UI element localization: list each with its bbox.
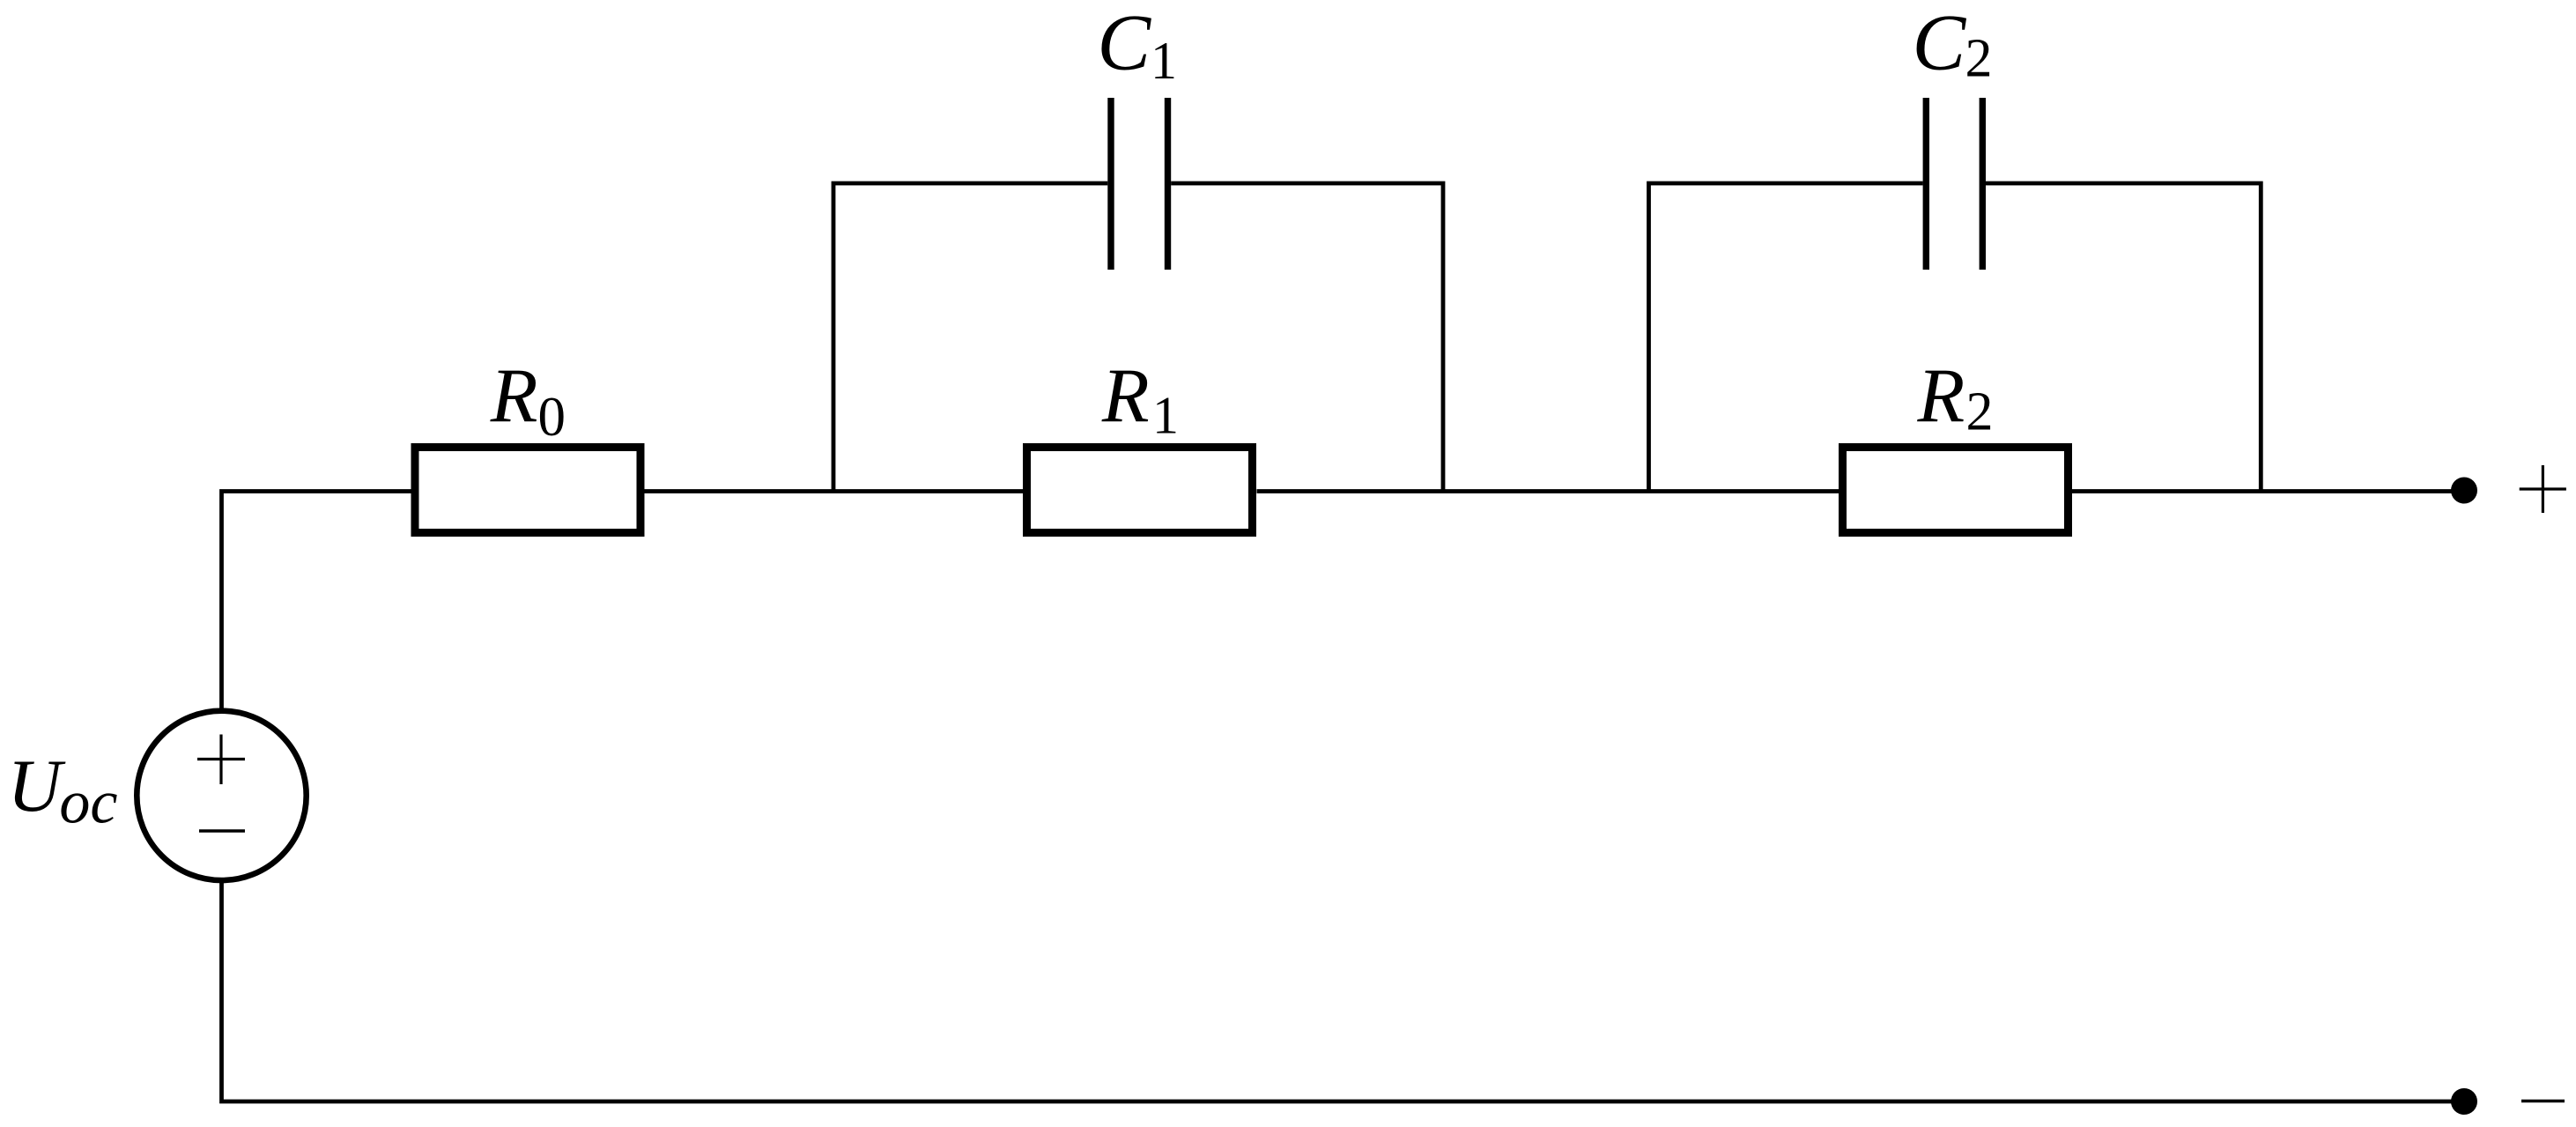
svg-text:C: C: [1913, 0, 1967, 86]
svg-text:U: U: [8, 745, 66, 827]
label R1: [1101, 354, 1179, 445]
wire: C2 loop left riser and top-left segment: [1649, 183, 1923, 493]
resistor R0: [415, 448, 640, 533]
wire: left branch from R0 to source top: [222, 492, 411, 710]
resistor R2: [1843, 448, 2069, 533]
svg-text:R: R: [1917, 354, 1965, 440]
voltage source U_oc: [137, 711, 306, 880]
wire: C1 loop top-right segment and right riser: [1171, 183, 1443, 493]
wire: R1 to R2: [1257, 489, 1843, 493]
label R0: [490, 354, 566, 449]
svg-text:2: 2: [1965, 29, 1993, 89]
wire: source bottom down and bottom rail to negative terminal: [222, 882, 2455, 1102]
resistor R1: [1027, 448, 1253, 533]
label R2: [1917, 354, 1994, 442]
label + (positive terminal): [2520, 465, 2566, 513]
label C2: [1913, 0, 1993, 89]
wire: C2 loop top-right segment and right riser: [1986, 183, 2261, 493]
svg-text:oc: oc: [59, 769, 117, 837]
capacitor C2: [1926, 98, 1982, 270]
node negative terminal: [2451, 1088, 2477, 1115]
svg-text:R: R: [1101, 354, 1150, 440]
label - (negative terminal): [2521, 1100, 2565, 1103]
wire: R0 to R1: [645, 489, 1024, 493]
svg-text:0: 0: [538, 386, 566, 448]
node positive terminal: [2451, 478, 2477, 504]
svg-text:C: C: [1097, 0, 1151, 86]
wire: R2 to positive terminal: [2069, 489, 2455, 493]
svg-text:1: 1: [1152, 387, 1179, 445]
label C1: [1097, 0, 1177, 90]
svg-text:2: 2: [1966, 382, 1994, 442]
svg-text:1: 1: [1151, 32, 1177, 90]
svg-text:R: R: [490, 354, 538, 440]
capacitor C1: [1111, 98, 1168, 270]
wire: C1 loop left riser and top-left segment: [833, 183, 1107, 493]
label Uoc: [8, 745, 118, 837]
